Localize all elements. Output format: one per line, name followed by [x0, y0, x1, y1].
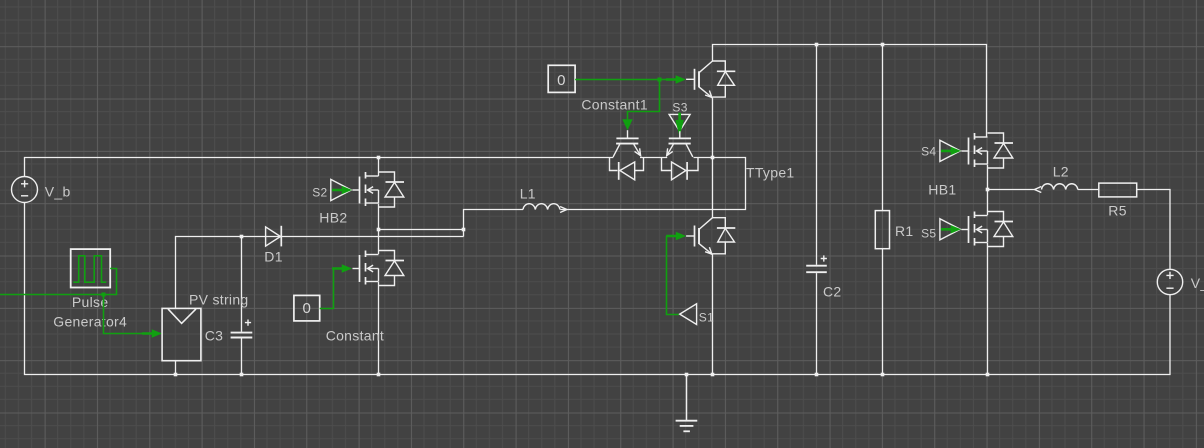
- igbt TType bottom: [686, 218, 735, 255]
- ground: [676, 375, 698, 432]
- wire C2 stems: [816, 45, 818, 375]
- PV string block: [162, 308, 201, 360]
- svg-text:S1: S1: [699, 311, 714, 325]
- green arrow S5: [941, 225, 961, 233]
- svg-text:C2: C2: [823, 284, 842, 300]
- junction rail HB2 drain: [377, 156, 381, 160]
- port S4: [940, 140, 960, 161]
- T-type clamp left diode: [610, 158, 644, 180]
- svg-text:HB2: HB2: [319, 210, 347, 226]
- green wire branch to clamp left gate: [628, 80, 660, 120]
- wire PV string bottom: [175, 361, 177, 375]
- svg-text:L1: L1: [520, 185, 536, 201]
- pulse waveform: [73, 256, 106, 282]
- junction bottom rail HB2: [377, 373, 381, 377]
- svg-text:S2: S2: [312, 185, 327, 199]
- green arrow S3: [675, 113, 684, 137]
- green wire Constant to HB2 lower gate: [320, 269, 342, 309]
- voltage source V_b: [12, 177, 38, 203]
- wire C3 stems: [241, 237, 243, 375]
- junction node L1/D1: [462, 228, 466, 232]
- port S5: [940, 219, 960, 240]
- svg-text:Constant1: Constant1: [581, 97, 648, 113]
- mosfet HB2 lower: [353, 251, 405, 286]
- green wire to PV string: [104, 295, 151, 334]
- green wire pulse generator output: [0, 269, 117, 295]
- svg-text:R1: R1: [895, 223, 914, 239]
- svg-text:PV string: PV string: [189, 292, 249, 308]
- junction C3 top: [240, 235, 244, 239]
- port S3: [669, 114, 690, 131]
- junction HB2 midpoint: [377, 228, 381, 232]
- green arrow clamp left gate: [622, 119, 632, 130]
- svg-text:R5: R5: [1108, 202, 1127, 218]
- green arrow S2: [332, 186, 352, 194]
- wire L2 to R5: [1078, 189, 1099, 191]
- wire R1 stems: [882, 45, 884, 375]
- svg-text:D1: D1: [264, 248, 283, 264]
- svg-text:0: 0: [557, 72, 566, 89]
- svg-text:0: 0: [302, 300, 311, 317]
- constant block (0): [294, 295, 320, 321]
- arrow clamp left emitter: [635, 148, 644, 157]
- junction top rail R1: [881, 43, 885, 47]
- junction bottom rail PV: [174, 373, 178, 377]
- junction bottom rail ground: [685, 373, 689, 377]
- green junction: [102, 293, 106, 297]
- mosfet HB2 upper: [353, 172, 405, 207]
- junction bottom rail TType: [711, 373, 715, 377]
- junction HB1 midpoint: [986, 188, 990, 192]
- capacitor C2: [806, 255, 827, 272]
- junction bottom rail C2: [815, 373, 819, 377]
- arrow L1: [560, 207, 567, 213]
- wire HB1 midpoint to L2: [988, 189, 1035, 191]
- arrow clamp right emitter: [664, 148, 673, 157]
- wire TType lower emitter to bottom rail: [712, 255, 714, 375]
- svg-text:HB1: HB1: [928, 182, 956, 198]
- green arrow TType bottom gate: [666, 232, 686, 240]
- wire V_b top rail to T-type clamp left: [25, 158, 614, 177]
- junction TType midpoint: [711, 156, 715, 160]
- wire R5 to V_: [1137, 190, 1170, 270]
- arrow L2 (pointing left): [1035, 187, 1042, 193]
- port S2: [331, 179, 351, 200]
- wire TType leg upper emitter to lower collector: [712, 98, 714, 218]
- wire T-type clamp mid rail: [640, 157, 667, 159]
- wire HB1 lower source to bottom rail: [987, 243, 989, 375]
- igbt TType top: [686, 61, 735, 98]
- mosfet HB1 lower: [962, 212, 1014, 247]
- svg-text:S5: S5: [921, 227, 936, 241]
- green wire Constant1 to top IGBT gate: [575, 79, 677, 81]
- green arrow S4: [941, 147, 961, 155]
- green wire S1 to TType bottom gate: [667, 236, 680, 315]
- svg-text:Constant: Constant: [326, 328, 384, 344]
- wire HB2 midpoint to node: [379, 229, 464, 231]
- junction bottom rail HB1: [986, 373, 990, 377]
- mosfet HB1 upper: [962, 133, 1014, 168]
- svg-text:L2: L2: [1053, 164, 1069, 180]
- T-type clamp left IGBT: [613, 130, 641, 157]
- svg-text:Generator4: Generator4: [53, 313, 127, 329]
- diode D1: [266, 226, 282, 247]
- wire bottom rail V_b to V_: [25, 203, 1171, 375]
- svg-text:S4: S4: [921, 145, 936, 159]
- green junction: [658, 78, 662, 82]
- wire L1 to T-type midpoint: [560, 158, 745, 210]
- green arrow HB2 lower gate: [332, 264, 352, 272]
- voltage source V_: [1157, 269, 1182, 294]
- inductor L2: [1042, 184, 1078, 190]
- resistor R1: [875, 211, 889, 249]
- wire T-type clamp right rail: [694, 157, 713, 159]
- wire HB2 upper drain: [378, 158, 380, 177]
- junction top rail C2: [815, 43, 819, 47]
- wire top rail TType to HB1: [713, 45, 987, 138]
- green arrow top IGBT gate: [666, 75, 686, 83]
- junction bottom rail C3: [240, 373, 244, 377]
- resistor R5: [1099, 183, 1137, 197]
- pulse generator block: [71, 249, 111, 287]
- svg-text:C3: C3: [205, 327, 224, 343]
- svg-text:S3: S3: [672, 101, 687, 115]
- svg-text:V_b: V_b: [45, 184, 71, 200]
- wire HB1 leg upper source to lower drain: [987, 165, 989, 216]
- junction bottom rail R1: [881, 373, 885, 377]
- inductor L1: [523, 204, 560, 210]
- svg-text:V_: V_: [1191, 275, 1204, 291]
- constant1 block (0): [548, 65, 575, 92]
- T-type clamp right IGBT: [667, 131, 693, 157]
- wire node up to L1: [464, 210, 524, 237]
- port S1: [680, 304, 697, 325]
- T-type clamp right diode: [662, 158, 699, 180]
- capacitor C3: [231, 320, 253, 338]
- wire PV string top / D1 rail: [176, 237, 464, 309]
- svg-text:TType1: TType1: [746, 165, 795, 181]
- wire HB2 leg upper source to lower drain: [378, 204, 380, 255]
- wire HB2 lower source to bottom rail: [378, 282, 380, 375]
- green arrow into PV string: [142, 329, 162, 337]
